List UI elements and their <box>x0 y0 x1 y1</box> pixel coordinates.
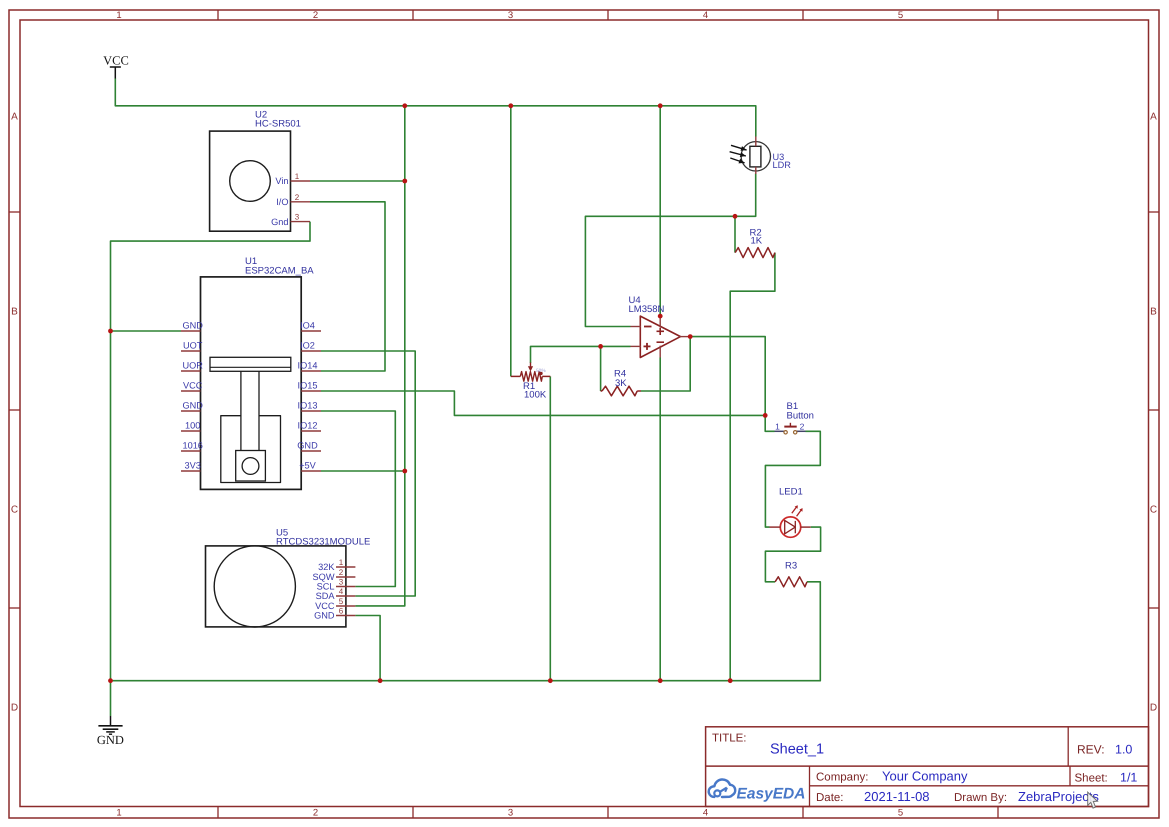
svg-text:REV:: REV: <box>1077 743 1105 757</box>
svg-text:Button: Button <box>787 411 814 422</box>
svg-text:HC-SR501: HC-SR501 <box>255 118 301 129</box>
wire U1 GND left pin to GND vertical <box>111 330 182 332</box>
junction GND rail / GND symbol <box>108 678 113 683</box>
svg-text:32K: 32K <box>318 562 335 572</box>
svg-text:SDA: SDA <box>316 591 336 601</box>
svg-text:2: 2 <box>313 808 318 819</box>
wire button B1 pin2 to LED1 anode <box>765 431 820 527</box>
svg-text:3: 3 <box>508 10 513 21</box>
junction GND rail / op-amp V- <box>658 678 663 683</box>
junction op-amp output / R4 <box>688 334 693 339</box>
svg-text:B: B <box>11 307 18 318</box>
svg-text:I/O: I/O <box>276 197 288 207</box>
svg-text:100: 100 <box>185 420 200 430</box>
wire U5 GND pin to GND rail <box>355 616 380 681</box>
svg-text:2: 2 <box>313 10 318 21</box>
svg-text:Date:: Date: <box>816 792 844 804</box>
svg-text:Your Company: Your Company <box>882 769 968 784</box>
wire op-amp inverting input to LDR bottom / R2 top <box>585 174 755 327</box>
svg-text:2: 2 <box>339 568 344 577</box>
svg-text:3: 3 <box>508 808 513 819</box>
svg-text:LDR: LDR <box>773 160 792 170</box>
junction op-amp V+ pin <box>658 314 663 319</box>
junction GND rail / R1 right lead <box>548 678 553 683</box>
svg-text:RTCDS3231MODULE: RTCDS3231MODULE <box>276 537 370 548</box>
svg-text:VCC: VCC <box>315 601 335 611</box>
wire VCC vertical down to U5 VCC pin <box>355 106 404 606</box>
svg-text:GND: GND <box>314 611 335 621</box>
svg-text:VCC: VCC <box>183 380 203 390</box>
svg-text:D: D <box>1150 703 1157 714</box>
svg-text:SCL: SCL <box>317 582 335 592</box>
junction VCC rail / VCC vertical <box>402 103 407 108</box>
svg-text:3V3: 3V3 <box>185 460 201 470</box>
wire LED1 cathode to R3 left lead <box>765 527 820 582</box>
junction U1 +5V node <box>402 469 407 474</box>
wire VCC rail to op-amp V+ pin <box>659 106 661 316</box>
svg-text:LED1: LED1 <box>779 487 803 498</box>
svg-text:IO14: IO14 <box>298 360 318 370</box>
junction output / IO15 / button <box>763 413 768 418</box>
svg-text:D: D <box>11 703 18 714</box>
svg-text:4: 4 <box>703 808 708 819</box>
potentiometer R1 100K <box>511 363 551 401</box>
wire R2 top lead to LDR junction <box>734 216 736 252</box>
svg-text:4: 4 <box>339 587 344 596</box>
svg-text:C: C <box>1150 505 1157 516</box>
svg-text:GND: GND <box>97 733 124 747</box>
resistor R2 1K <box>735 228 775 258</box>
photoresistor U3 LDR <box>730 137 792 175</box>
junction non-inverting input / R4 <box>598 344 603 349</box>
svg-text:Gnd: Gnd <box>271 217 288 227</box>
svg-text:A: A <box>1150 112 1157 123</box>
svg-text:ESP32CAM_BA: ESP32CAM_BA <box>245 266 314 277</box>
svg-text:3: 3 <box>295 213 300 222</box>
junction LDR bottom / R2 top <box>733 214 738 219</box>
svg-text:SQW: SQW <box>313 572 335 582</box>
wire U2 pin1 Vin to VCC vertical <box>310 180 405 182</box>
svg-text:UOT: UOT <box>183 340 203 350</box>
svg-text:6: 6 <box>339 607 344 616</box>
wire U1 IO2 to U5 SDA <box>321 351 415 596</box>
svg-text:2021-11-08: 2021-11-08 <box>864 789 930 804</box>
wire non-inverting node down to R4 left lead <box>600 346 602 391</box>
pushbutton B1 Button <box>775 401 814 434</box>
wire R1 wiper to op-amp non-inverting input <box>531 346 631 363</box>
svg-text:R3: R3 <box>785 561 797 572</box>
op-amp U4 LM358N <box>629 295 691 358</box>
svg-text:IO4: IO4 <box>300 320 315 330</box>
svg-text:Company:: Company: <box>816 772 868 784</box>
svg-text:3K: 3K <box>615 378 627 389</box>
svg-text:LM358N: LM358N <box>629 304 665 315</box>
svg-text:EasyEDA: EasyEDA <box>737 786 806 803</box>
resistor R4 3K <box>601 369 641 396</box>
wire U1 +5V pin to VCC vertical <box>321 470 405 472</box>
svg-text:5: 5 <box>898 10 903 21</box>
svg-text:Sheet:: Sheet: <box>1075 773 1108 785</box>
svg-text:B: B <box>1150 307 1157 318</box>
svg-text:GND: GND <box>182 320 203 330</box>
resistor R3 <box>775 561 807 587</box>
svg-text:1/1: 1/1 <box>1120 771 1137 785</box>
svg-text:1: 1 <box>775 421 780 431</box>
svg-text:4: 4 <box>703 10 708 21</box>
svg-text:3: 3 <box>339 578 344 587</box>
svg-text:+5V: +5V <box>299 460 316 470</box>
wire R1 right lead down to GND rail <box>549 376 551 680</box>
svg-text:100K: 100K <box>524 390 547 401</box>
svg-text:Drawn By:: Drawn By: <box>954 792 1007 804</box>
svg-text:C: C <box>11 505 18 516</box>
wire U1 IO13 to U5 SCL <box>321 411 395 587</box>
svg-text:Vin: Vin <box>275 176 288 186</box>
svg-text:1K: 1K <box>751 236 763 247</box>
junction GND rail / U5 GND <box>378 678 383 683</box>
svg-text:5: 5 <box>339 597 344 606</box>
svg-text:UOR: UOR <box>182 360 203 370</box>
ground symbol GND <box>97 716 124 747</box>
svg-text:5: 5 <box>898 808 903 819</box>
wire U2 pin2 I/O to U1 IO14 <box>310 202 385 371</box>
svg-text:2: 2 <box>800 421 805 431</box>
junction VCC rail / R1 lead <box>508 103 513 108</box>
PIR sensor module U2 HC-SR501 <box>210 110 310 232</box>
svg-text:IO12: IO12 <box>298 420 318 430</box>
wire U1 IO15 to output junction <box>321 391 765 415</box>
wire U2 pin3 Gnd down to GND net vertical <box>111 222 311 681</box>
LED LED1 <box>770 487 811 538</box>
wire bottom GND rail and R3 bottom lead <box>111 582 821 681</box>
svg-text:A: A <box>11 112 18 123</box>
junction U1 GND left pin node <box>108 329 113 334</box>
svg-text:2: 2 <box>295 193 300 202</box>
wire VCC rail to R1 left lead <box>510 106 512 377</box>
svg-text:1: 1 <box>116 808 121 819</box>
svg-text:IO2: IO2 <box>300 340 315 350</box>
RTC module U5 RTCDS3231MODULE <box>206 528 371 628</box>
wire GND rail to ground symbol <box>110 681 112 716</box>
svg-text:VCC: VCC <box>103 54 129 68</box>
junction U2 Vin node <box>402 179 407 184</box>
svg-text:50%: 50% <box>536 368 546 374</box>
wire op-amp V- pin to GND rail <box>659 358 661 681</box>
wire R2 bottom lead down to GND rail <box>730 253 775 681</box>
svg-text:1: 1 <box>339 558 344 567</box>
svg-text:1: 1 <box>116 10 121 21</box>
wire VCC rail from VCC flag to LDR top <box>115 79 756 137</box>
wire R4 right lead up to op-amp output <box>641 337 690 391</box>
svg-text:IO15: IO15 <box>298 380 318 390</box>
power flag VCC <box>103 54 129 80</box>
wire op-amp output to button B1 pin1 <box>690 337 774 432</box>
junction GND rail / R2 bottom <box>728 678 733 683</box>
svg-text:GND: GND <box>297 440 318 450</box>
junction VCC rail / op-amp V+ <box>658 103 663 108</box>
svg-text:Sheet_1: Sheet_1 <box>770 742 824 758</box>
ESP32-CAM module U1 ESP32CAM_BA <box>181 256 321 489</box>
svg-text:1.0: 1.0 <box>1115 743 1132 757</box>
svg-text:1016: 1016 <box>182 440 202 450</box>
svg-text:TITLE:: TITLE: <box>712 733 747 745</box>
svg-text:IO13: IO13 <box>298 400 318 410</box>
svg-text:1: 1 <box>295 172 300 181</box>
svg-text:GND: GND <box>182 400 203 410</box>
